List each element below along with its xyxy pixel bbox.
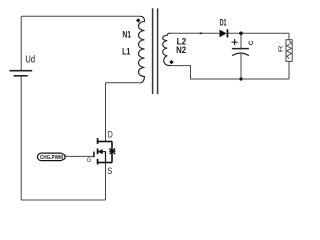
svg-text:R: R (278, 45, 284, 52)
svg-text:L1: L1 (122, 46, 131, 57)
svg-text:D1: D1 (220, 18, 227, 29)
svg-text:N1: N1 (122, 30, 131, 41)
svg-text:G: G (87, 157, 91, 164)
svg-text:N2: N2 (176, 45, 186, 56)
svg-text:C: C (248, 40, 255, 45)
svg-text:D: D (108, 129, 113, 139)
svg-text:Ud: Ud (25, 55, 35, 66)
svg-text:CHG.PWM: CHG.PWM (40, 155, 63, 161)
svg-text:S: S (108, 166, 113, 176)
